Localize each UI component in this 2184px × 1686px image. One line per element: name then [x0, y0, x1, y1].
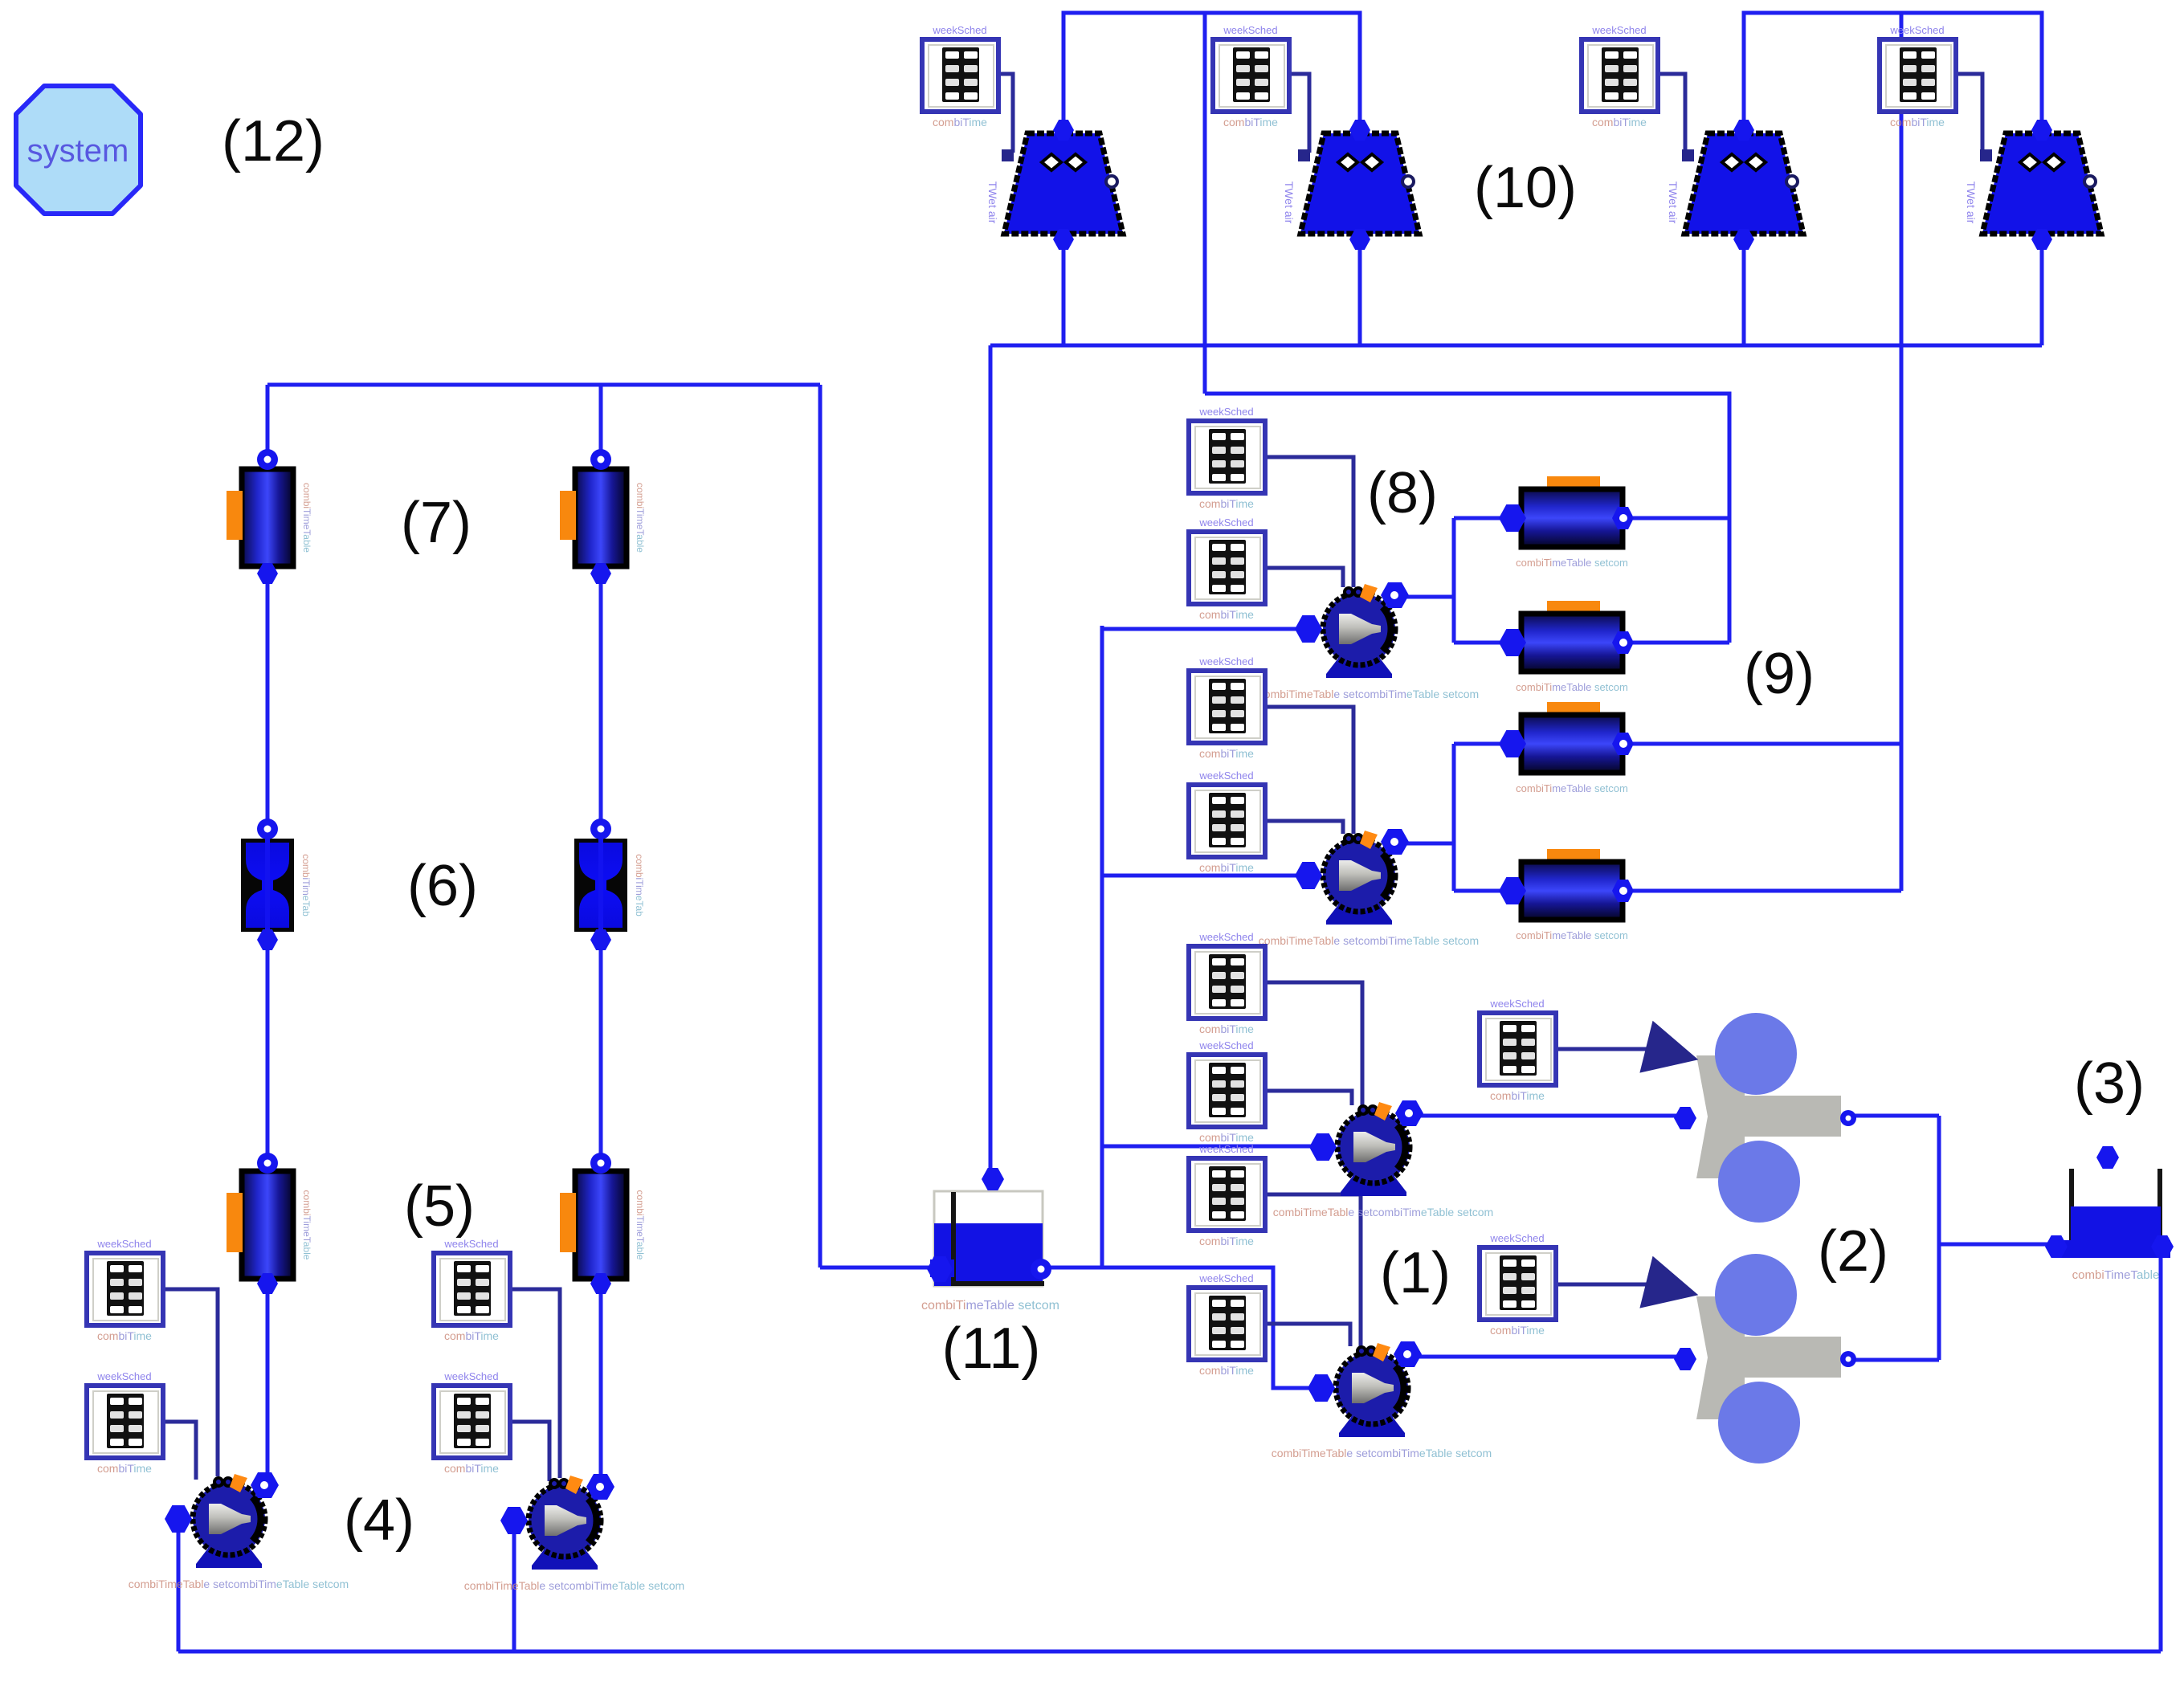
- svg-text:combiTime: combiTime: [1199, 1235, 1254, 1247]
- wire bottom return main: [178, 1650, 2161, 1654]
- svg-text:combiTime: combiTime: [1199, 497, 1254, 510]
- data table p8tableB: [1189, 1272, 1265, 1377]
- signal table4 to tower4: [1956, 74, 1982, 153]
- wire tower3 bottom stub: [1742, 241, 1746, 345]
- svg-text:combiTimeTable setcom: combiTimeTable setcom: [1516, 929, 1628, 941]
- svg-text:combiTimeTab: combiTimeTab: [634, 854, 645, 916]
- data table p5tableB: [1189, 516, 1265, 621]
- signal table3 to tower3: [1658, 74, 1685, 153]
- pump distPump1: [1259, 582, 1479, 700]
- signal tableD to pump2: [510, 1422, 549, 1481]
- svg-text:combiTime: combiTime: [1199, 1364, 1254, 1377]
- svg-text:combiTimeTable: combiTimeTable: [635, 483, 646, 553]
- wire chiller2 outlet: [1849, 1358, 1939, 1362]
- svg-text:combiTimeTable setcombiTimeTab: combiTimeTable setcombiTimeTable setcom: [1259, 688, 1479, 700]
- pipe pipe5L: [227, 1171, 312, 1279]
- wire to HX pair 1 outlet collector: [1205, 394, 1729, 643]
- svg-text:(2): (2): [1818, 1219, 1888, 1284]
- wire header down to tank left: [818, 385, 823, 1268]
- pump condPump2: [464, 1474, 684, 1592]
- data table towerSched2: [1213, 24, 1289, 129]
- wire riser from top header 2 down: [1900, 13, 1904, 891]
- signal table1 to tower1: [998, 74, 1013, 153]
- svg-text:combiTimeTable: combiTimeTable: [2072, 1268, 2160, 1282]
- wire filter6R to pipe5R: [599, 937, 603, 1166]
- wire filter chains top header: [267, 383, 820, 387]
- wire pump6 outlet: [1394, 842, 1454, 846]
- pump chwPump2: [1272, 1341, 1492, 1459]
- svg-text:TWet air: TWet air: [1283, 182, 1296, 224]
- port pipe5R top: [590, 1153, 611, 1174]
- chiller chiller2: [1674, 1254, 1856, 1464]
- port filter1 top: [257, 819, 278, 839]
- data table chillerTable2: [1480, 1232, 1556, 1337]
- svg-text:weekSched: weekSched: [1591, 24, 1646, 36]
- svg-text:(8): (8): [1367, 461, 1438, 525]
- svg-text:(1): (1): [1380, 1241, 1451, 1305]
- svg-text:combiTime: combiTime: [97, 1329, 152, 1342]
- data table p8tableA: [1189, 1143, 1265, 1247]
- svg-text:TWet air: TWet air: [1965, 182, 1978, 224]
- wire HX4 outlet: [1633, 889, 1901, 893]
- signal arrow toChiller2: [1641, 1258, 1701, 1318]
- wire bottom return up to tank3: [2159, 1251, 2163, 1651]
- wire into tank left port: [820, 1266, 938, 1270]
- data table p6tableB: [1189, 770, 1265, 874]
- wire pump8 outlet to chiller2: [1407, 1355, 1680, 1359]
- svg-text:combiTimeTab: combiTimeTab: [300, 854, 312, 916]
- svg-text:combiTimeTable setcombiTimeTab: combiTimeTable setcombiTimeTable setcom: [1273, 1206, 1493, 1219]
- signal arrow toChiller1: [1641, 1023, 1701, 1083]
- svg-text:(9): (9): [1744, 642, 1815, 706]
- wire HX4 inlet: [1454, 889, 1507, 893]
- data table towerSched4: [1880, 24, 1956, 129]
- heat exchanger HX2: [1499, 601, 1634, 693]
- svg-text:TWet air: TWet air: [1667, 182, 1680, 224]
- signal tableB to pump1: [163, 1422, 196, 1480]
- port filter1 bottom: [257, 929, 278, 950]
- signal table to pump5 b: [1265, 568, 1343, 587]
- pump condPump1: [129, 1472, 349, 1590]
- svg-text:combiTime: combiTime: [1199, 1023, 1254, 1035]
- svg-text:weekSched: weekSched: [1198, 406, 1253, 418]
- chiller chiller1: [1674, 1013, 1856, 1223]
- port pipe7L top: [257, 449, 278, 470]
- svg-text:weekSched: weekSched: [443, 1370, 498, 1382]
- data table pumpTableA: [87, 1238, 163, 1342]
- data table p7tableB: [1189, 1039, 1265, 1144]
- data table towerSched3: [1582, 24, 1658, 129]
- svg-text:(10): (10): [1474, 156, 1577, 220]
- wire to pump7 inlet: [1102, 1145, 1321, 1149]
- svg-text:weekSched: weekSched: [1198, 1272, 1253, 1284]
- svg-text:combiTime: combiTime: [1223, 116, 1278, 129]
- wire tank right port to pump4 inlet: [1044, 1268, 1319, 1388]
- svg-text:weekSched: weekSched: [1198, 770, 1253, 782]
- signal table to chiller2: [1556, 1283, 1647, 1287]
- wire chiller1 outlet: [1849, 1114, 1939, 1118]
- wire HX1 inlet: [1454, 516, 1507, 520]
- wire pump2 inlet down: [512, 1522, 516, 1651]
- wire towers 3-4 top header: [1744, 13, 2042, 130]
- svg-text:TWet air: TWet air: [986, 182, 999, 224]
- svg-text:(5): (5): [404, 1174, 475, 1239]
- svg-text:combiTimeTable setcom: combiTimeTable setcom: [1516, 782, 1628, 794]
- svg-text:combiTime: combiTime: [1199, 861, 1254, 874]
- svg-text:(7): (7): [401, 491, 471, 555]
- data table p6tableA: [1189, 655, 1265, 760]
- signal table to pump7 b: [1265, 1091, 1352, 1105]
- wire HX1 outlet: [1633, 516, 1729, 520]
- svg-text:combiTimeTable setcom: combiTimeTable setcom: [1516, 557, 1628, 569]
- wire pump1 inlet down: [177, 1521, 181, 1651]
- wire pipe5L to pump1 outlet: [266, 1279, 270, 1484]
- signal table to pump7 a: [1265, 982, 1362, 1105]
- pump chwPump1: [1273, 1100, 1493, 1219]
- svg-text:combiTime: combiTime: [1592, 116, 1647, 129]
- port filter2 bottom: [590, 929, 611, 950]
- data table pumpTableB: [87, 1370, 163, 1475]
- heat exchanger HX1: [1499, 476, 1634, 569]
- svg-text:combiTime: combiTime: [444, 1462, 499, 1475]
- data table pumpTableC: [434, 1238, 510, 1342]
- wire collector down to storage tank top: [989, 345, 993, 1178]
- svg-text:(12): (12): [222, 109, 325, 173]
- data table pumpTableD: [434, 1370, 510, 1475]
- wire chain1 top stub: [266, 385, 270, 455]
- wire HX3 inlet: [1454, 742, 1507, 746]
- wire pipe5R to pump2 outlet: [599, 1279, 603, 1488]
- svg-text:combiTime: combiTime: [1890, 116, 1945, 129]
- svg-text:combiTime: combiTime: [444, 1329, 499, 1342]
- svg-text:weekSched: weekSched: [1198, 516, 1253, 529]
- signal table to pump5 a: [1265, 457, 1353, 587]
- wire tower2 bottom stub: [1358, 241, 1362, 345]
- system block: [16, 86, 141, 214]
- wire filter6L to pipe5L: [266, 937, 270, 1166]
- pump distPump2: [1259, 829, 1479, 947]
- svg-text:weekSched: weekSched: [1889, 24, 1944, 36]
- port pipe5R bottom: [590, 1273, 611, 1294]
- svg-text:(3): (3): [2074, 1051, 2145, 1116]
- svg-text:weekSched: weekSched: [96, 1370, 151, 1382]
- port pipe5L top: [257, 1153, 278, 1174]
- svg-text:combiTime: combiTime: [1199, 1131, 1254, 1144]
- svg-text:combiTimeTable setcombiTimeTab: combiTimeTable setcombiTimeTable setcom: [129, 1578, 349, 1590]
- svg-text:weekSched: weekSched: [1198, 931, 1253, 943]
- wire HX2 outlet: [1633, 641, 1729, 645]
- data table p7tableA: [1189, 931, 1265, 1035]
- wire HX3 outlet: [1633, 742, 1901, 746]
- sand filter sandFilter1: [241, 839, 312, 932]
- svg-text:weekSched: weekSched: [1489, 998, 1544, 1010]
- signal tableC to pump2: [510, 1289, 560, 1478]
- svg-text:combiTimeTable setcom: combiTimeTable setcom: [1516, 681, 1628, 693]
- wire tower4 bottom stub: [2040, 241, 2044, 345]
- wire to tank3 left port: [1939, 1243, 2053, 1247]
- wire riser from top header 1 down: [1203, 13, 1207, 394]
- wire HX pair1 inlet manifold: [1452, 518, 1456, 643]
- svg-text:combiTime: combiTime: [933, 116, 987, 129]
- wire to pump6 inlet: [1102, 874, 1306, 878]
- wire towers 1-2 top header: [1063, 13, 1360, 130]
- svg-text:combiTimeTable: combiTimeTable: [301, 483, 312, 553]
- cooling tower coolingTower1: [986, 120, 1123, 250]
- wire tank riser to pumps: [1100, 626, 1104, 1268]
- svg-text:combiTimeTable: combiTimeTable: [635, 1190, 646, 1260]
- signal table2 to tower2: [1289, 74, 1309, 153]
- port pipe7L bottom: [257, 563, 278, 584]
- port filter2 top: [590, 819, 611, 839]
- signal tableA to pump1: [163, 1289, 218, 1476]
- svg-text:(11): (11): [942, 1317, 1041, 1381]
- wire tower bottom collector: [990, 344, 2042, 348]
- storage tank: [921, 1168, 1059, 1312]
- data table chillerTable1: [1480, 998, 1556, 1102]
- pipe pipe5R: [560, 1171, 646, 1279]
- signal table to pump8 b: [1265, 1324, 1350, 1346]
- svg-text:weekSched: weekSched: [1198, 655, 1253, 667]
- expansion tank: [2045, 1146, 2174, 1282]
- svg-text:weekSched: weekSched: [96, 1238, 151, 1250]
- svg-text:combiTimeTable setcombiTimeTab: combiTimeTable setcombiTimeTable setcom: [1272, 1447, 1492, 1459]
- svg-text:combiTime: combiTime: [1490, 1324, 1545, 1337]
- svg-text:weekSched: weekSched: [1198, 1143, 1253, 1155]
- svg-text:combiTimeTable setcombiTimeTab: combiTimeTable setcombiTimeTable setcom: [1259, 934, 1479, 947]
- heat exchanger HX4: [1499, 849, 1634, 941]
- cooling tower coolingTower2: [1283, 120, 1419, 250]
- wire pump5 outlet: [1394, 595, 1454, 599]
- port pipe7R bottom: [590, 563, 611, 584]
- wire to pump5 inlet: [1102, 627, 1306, 631]
- port pipe5L bottom: [257, 1273, 278, 1294]
- svg-text:combiTimeTable setcom: combiTimeTable setcom: [921, 1299, 1059, 1312]
- data table p5tableA: [1189, 406, 1265, 510]
- signal table to pump8 a: [1265, 1194, 1361, 1346]
- heat exchanger HX3: [1499, 702, 1634, 794]
- cooling tower coolingTower4: [1965, 120, 2101, 250]
- wire chiller outlet manifold: [1937, 1116, 1941, 1360]
- svg-text:combiTime: combiTime: [1199, 608, 1254, 621]
- wire chain2 top stub: [599, 385, 603, 455]
- svg-text:combiTime: combiTime: [1199, 747, 1254, 760]
- sand filter sandFilter2: [574, 839, 645, 932]
- wire tower1 bottom stub: [1062, 241, 1066, 345]
- svg-text:weekSched: weekSched: [1489, 1232, 1544, 1244]
- wire HX2 inlet: [1454, 641, 1507, 645]
- signal table to pump6 b: [1265, 821, 1343, 834]
- wire pipe7R to filter6R: [599, 577, 603, 834]
- signal table to chiller1: [1556, 1047, 1647, 1051]
- svg-text:combiTime: combiTime: [1490, 1089, 1545, 1102]
- wire pipe7L to filter6L: [266, 577, 270, 834]
- svg-text:combiTime: combiTime: [97, 1462, 152, 1475]
- signal table to pump6 a: [1265, 707, 1353, 834]
- svg-text:weekSched: weekSched: [1198, 1039, 1253, 1051]
- svg-text:combiTimeTable: combiTimeTable: [301, 1190, 312, 1260]
- wire HX pair2 inlet manifold: [1452, 744, 1456, 891]
- cooling tower coolingTower3: [1667, 120, 1803, 250]
- port pipe7R top: [590, 449, 611, 470]
- wire pump7 outlet to chiller1: [1409, 1114, 1680, 1118]
- svg-text:combiTimeTable setcombiTimeTab: combiTimeTable setcombiTimeTable setcom: [464, 1579, 684, 1592]
- svg-text:(6): (6): [407, 854, 478, 918]
- svg-text:system: system: [27, 133, 129, 169]
- svg-text:weekSched: weekSched: [1223, 24, 1277, 36]
- svg-text:(4): (4): [344, 1488, 414, 1553]
- svg-text:weekSched: weekSched: [443, 1238, 498, 1250]
- data table towerSched1: [922, 24, 998, 129]
- pipe pipe7L: [227, 469, 312, 566]
- svg-text:weekSched: weekSched: [932, 24, 986, 36]
- pipe pipe7R: [560, 469, 646, 566]
